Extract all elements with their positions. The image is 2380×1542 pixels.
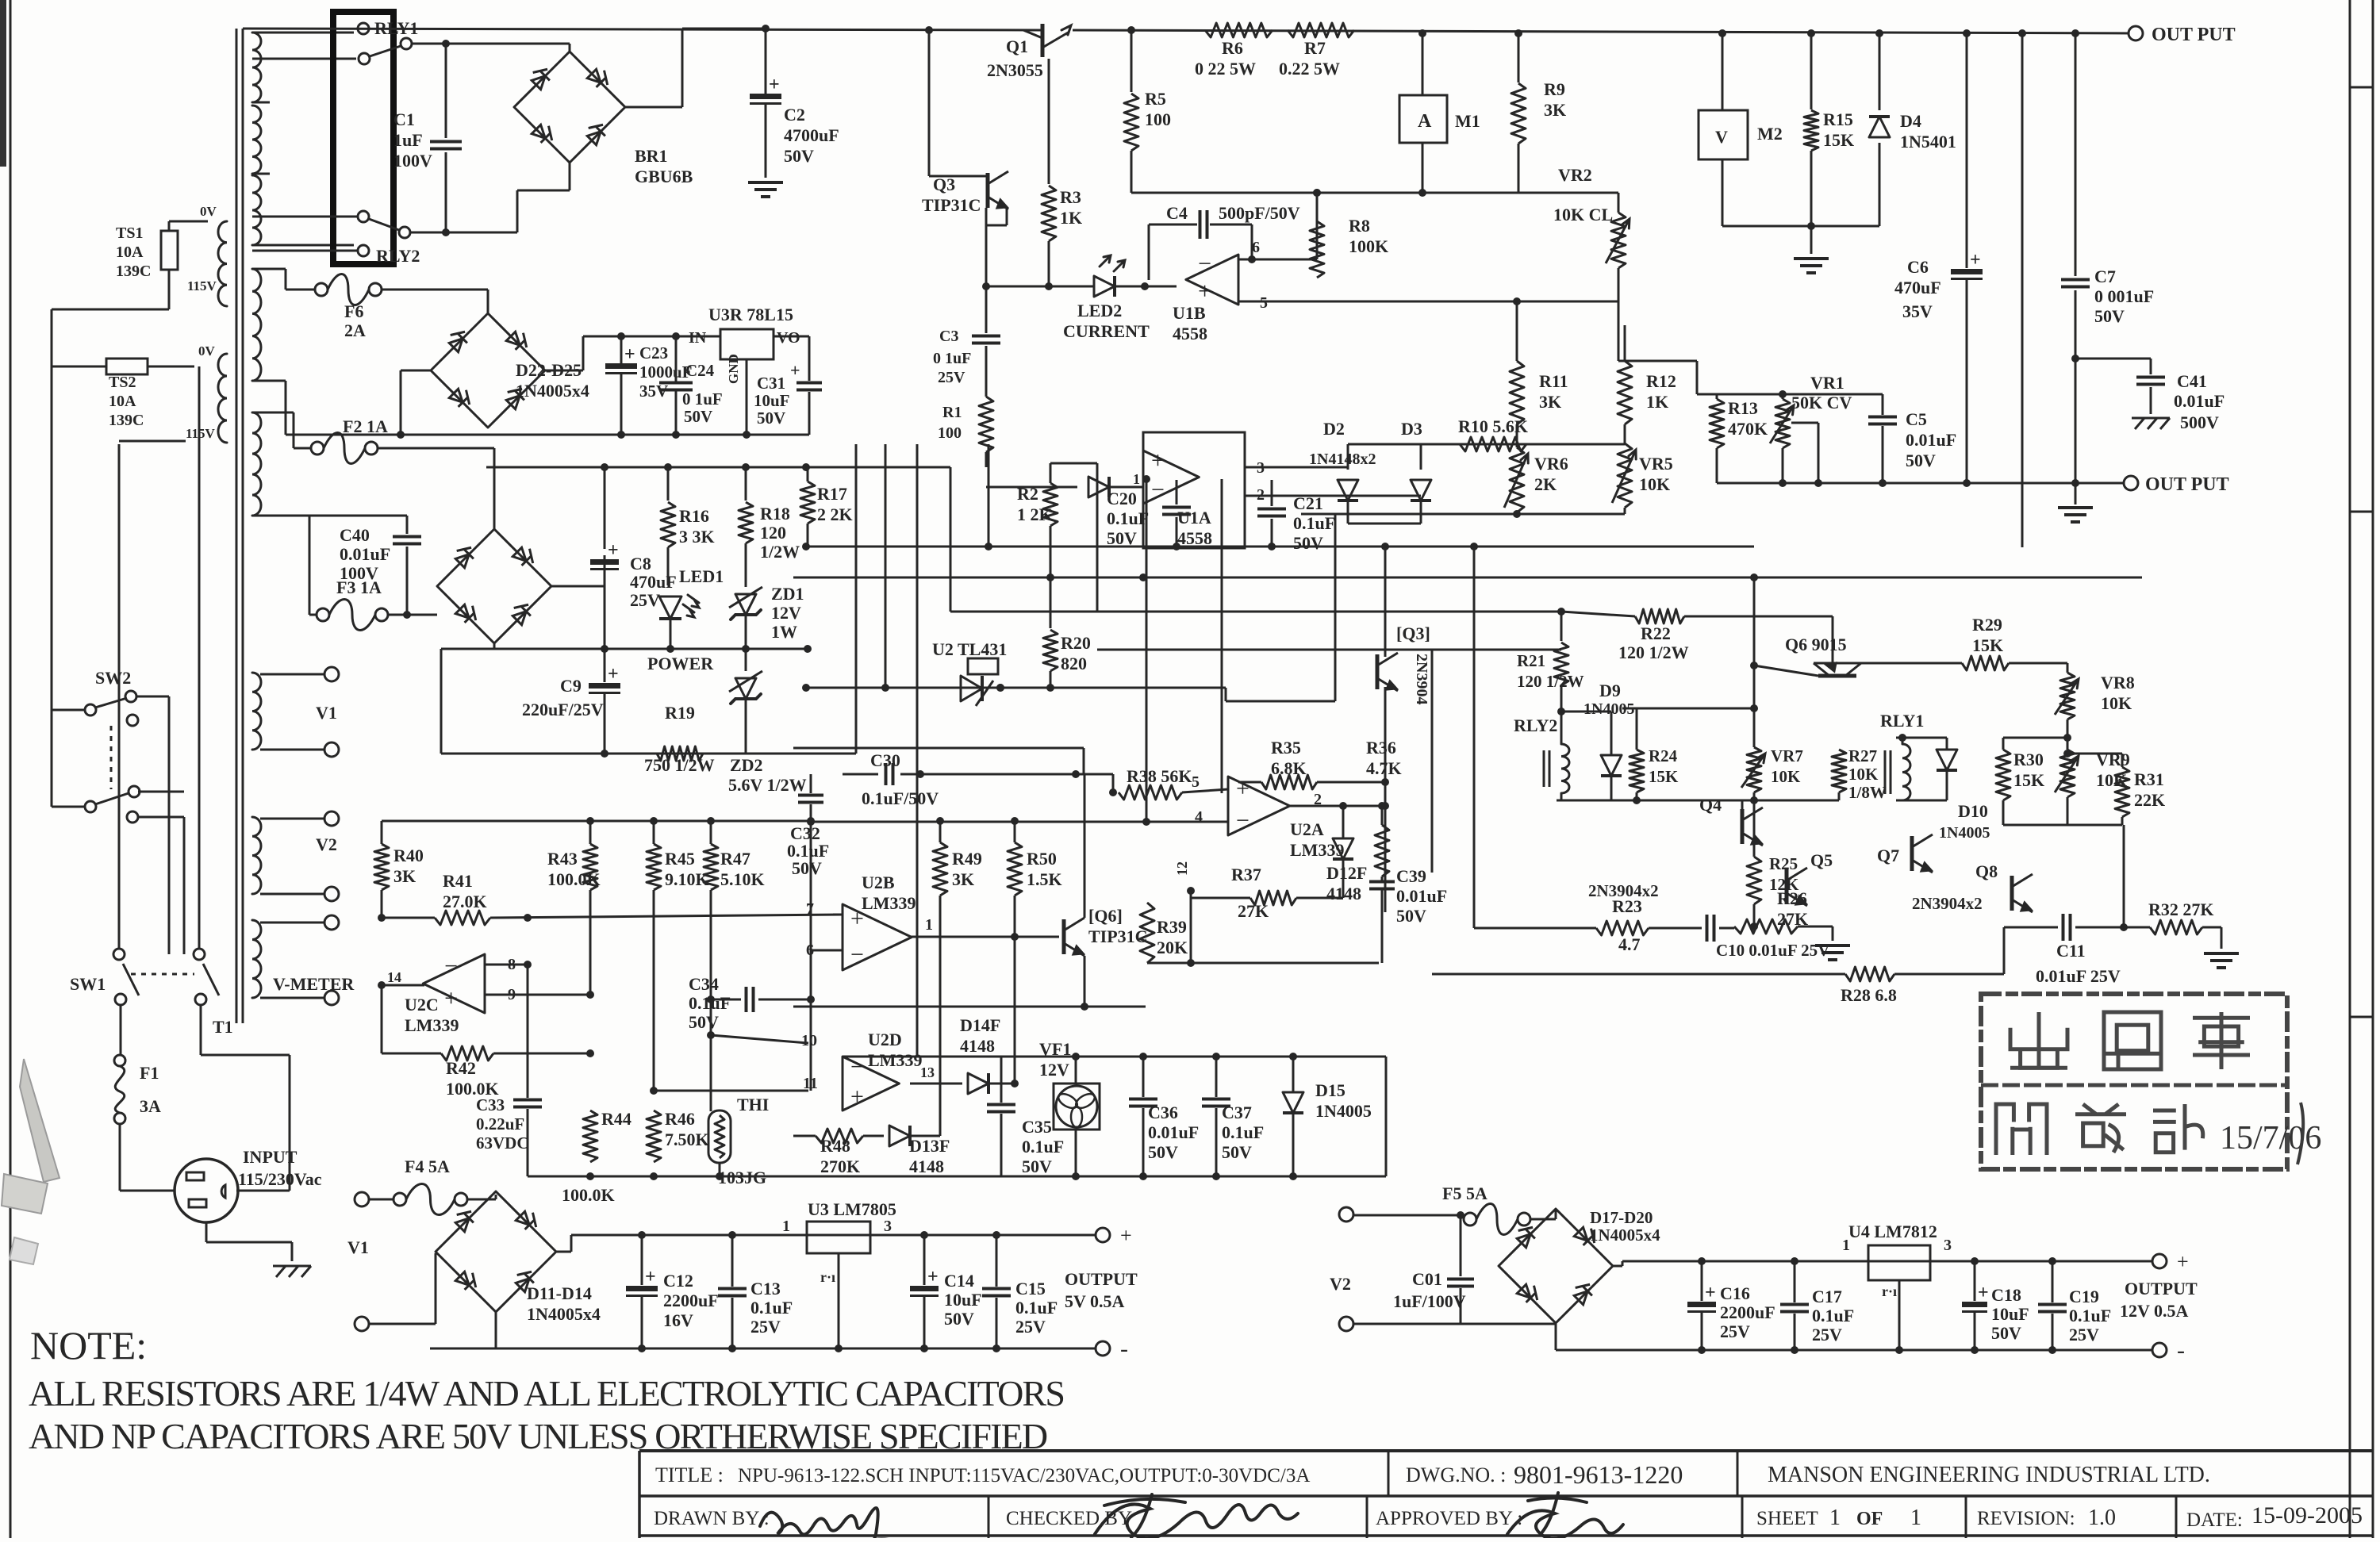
svg-text:GBU6B: GBU6B [635, 167, 693, 186]
svg-text:NOTE:: NOTE: [30, 1323, 147, 1367]
svg-text:R44: R44 [601, 1109, 631, 1129]
svg-text:C34: C34 [689, 974, 719, 994]
svg-text:50K CV: 50K CV [1791, 393, 1852, 412]
svg-text:R1: R1 [942, 404, 962, 421]
svg-text:+: + [624, 344, 635, 365]
svg-text:R13: R13 [1728, 398, 1758, 418]
svg-text:R39: R39 [1157, 917, 1187, 937]
svg-text:r·ı: r·ı [820, 1269, 835, 1285]
svg-text:F6: F6 [344, 301, 363, 321]
svg-text:R28 6.8: R28 6.8 [1841, 985, 1897, 1005]
svg-text:Q4: Q4 [1699, 795, 1722, 815]
svg-text:R49: R49 [952, 849, 982, 869]
svg-text:M1: M1 [1455, 111, 1480, 131]
svg-text:D12F: D12F [1326, 863, 1367, 883]
svg-text:2200uF: 2200uF [1720, 1302, 1775, 1322]
svg-text:2200uF: 2200uF [663, 1291, 719, 1310]
svg-text:R40: R40 [393, 846, 424, 865]
svg-text:0.1uF: 0.1uF [1107, 508, 1149, 528]
svg-text:4148: 4148 [1326, 884, 1361, 903]
svg-text:1W: 1W [771, 622, 797, 642]
svg-text:R43: R43 [547, 849, 578, 869]
svg-text:R2: R2 [1017, 484, 1038, 504]
svg-text:−: − [444, 953, 458, 979]
svg-text:U2B: U2B [862, 873, 895, 892]
svg-text:+: + [790, 360, 800, 380]
svg-text:9.10K: 9.10K [665, 869, 709, 889]
svg-text:10: 10 [801, 1032, 817, 1049]
svg-text:R31: R31 [2134, 769, 2164, 789]
svg-text:C39: C39 [1396, 866, 1426, 886]
svg-text:-: - [2177, 1337, 2185, 1364]
svg-text:[Q3]: [Q3] [1396, 623, 1430, 643]
svg-text:C33: C33 [476, 1095, 505, 1114]
svg-text:1N5401: 1N5401 [1900, 132, 1956, 152]
svg-text:R16: R16 [679, 506, 709, 526]
svg-text:R21: R21 [1517, 651, 1545, 670]
svg-text:VR6: VR6 [1534, 454, 1568, 474]
svg-text:5: 5 [1192, 773, 1200, 791]
svg-text:D10: D10 [1958, 801, 1988, 821]
svg-text:LM339: LM339 [862, 893, 916, 913]
svg-text:D13F: D13F [909, 1136, 950, 1156]
svg-text:10K: 10K [1639, 474, 1670, 494]
svg-text:−: − [1198, 251, 1211, 277]
svg-text:2N3904: 2N3904 [1413, 654, 1430, 704]
svg-text:LM339: LM339 [405, 1015, 459, 1035]
svg-text:0 001uF: 0 001uF [2094, 286, 2154, 306]
svg-text:2A: 2A [344, 320, 366, 340]
svg-text:C11: C11 [2056, 941, 2086, 961]
svg-text:12V: 12V [1039, 1060, 1069, 1080]
svg-text:C1: C1 [393, 109, 415, 129]
svg-text:F2 1A: F2 1A [343, 416, 388, 436]
svg-text:50V: 50V [1107, 528, 1137, 548]
svg-text:139C: 139C [116, 263, 151, 280]
svg-text:115/230Vac: 115/230Vac [238, 1169, 322, 1189]
svg-text:1.5K: 1.5K [1027, 869, 1062, 889]
svg-text:3 3K: 3 3K [679, 527, 715, 547]
svg-text:120: 120 [760, 523, 786, 543]
svg-text:4558: 4558 [1173, 324, 1207, 343]
svg-text:R37: R37 [1231, 865, 1261, 884]
svg-text:10uF: 10uF [1991, 1304, 2029, 1324]
svg-text:50V: 50V [1148, 1142, 1178, 1162]
svg-text:OF: OF [1856, 1509, 1883, 1529]
svg-text:GND: GND [726, 354, 741, 384]
svg-text:500pF/50V: 500pF/50V [1219, 203, 1300, 223]
svg-text:ALL RESISTORS ARE 1/4W AND ALL: ALL RESISTORS ARE 1/4W AND ALL ELECTROLY… [29, 1373, 1064, 1413]
svg-text:25V: 25V [938, 369, 965, 386]
svg-text:R42: R42 [446, 1058, 476, 1078]
svg-text:+: + [769, 75, 780, 95]
svg-text:470K: 470K [1728, 419, 1768, 439]
svg-text:C9: C9 [560, 676, 582, 696]
svg-text:V: V [1715, 127, 1728, 147]
svg-text:3K: 3K [1544, 100, 1566, 120]
svg-text:470uF: 470uF [1894, 278, 1941, 297]
svg-text:C35: C35 [1022, 1117, 1052, 1137]
svg-text:LED2: LED2 [1077, 301, 1122, 320]
svg-text:3: 3 [884, 1218, 892, 1235]
svg-text:100V: 100V [340, 563, 378, 583]
svg-text:4.7K: 4.7K [1366, 758, 1402, 778]
svg-text:100: 100 [938, 424, 962, 442]
svg-text:+: + [444, 985, 458, 1011]
svg-text:+: + [1705, 1283, 1716, 1303]
svg-text:R18: R18 [760, 504, 790, 524]
svg-text:U4 LM7812: U4 LM7812 [1848, 1222, 1937, 1241]
svg-text:50V: 50V [2094, 306, 2125, 326]
svg-text:25V: 25V [1015, 1317, 1046, 1337]
svg-text:0.1uF: 0.1uF [2069, 1306, 2111, 1325]
svg-text:0.1uF: 0.1uF [1222, 1122, 1264, 1142]
svg-text:R19: R19 [665, 703, 695, 723]
svg-text:R11: R11 [1539, 371, 1568, 391]
svg-text:R23: R23 [1612, 896, 1642, 916]
svg-text:TS2: TS2 [109, 374, 136, 391]
svg-text:D9: D9 [1599, 681, 1621, 700]
svg-text:V1: V1 [316, 703, 337, 723]
svg-text:1N4005x4: 1N4005x4 [516, 381, 589, 401]
svg-text:C12: C12 [663, 1271, 693, 1291]
svg-text:OUTPUT: OUTPUT [1065, 1269, 1138, 1289]
svg-text:35V: 35V [1902, 301, 1933, 321]
svg-text:D15: D15 [1315, 1080, 1345, 1100]
svg-text:D3: D3 [1401, 419, 1422, 439]
svg-text:0V: 0V [200, 204, 217, 219]
svg-text:D11-D14: D11-D14 [527, 1283, 592, 1303]
svg-text:3K: 3K [952, 869, 974, 889]
svg-text:3: 3 [1944, 1237, 1952, 1254]
svg-text:100.0K: 100.0K [547, 869, 601, 889]
svg-text:63VDC: 63VDC [476, 1133, 529, 1153]
svg-text:A: A [1418, 111, 1432, 132]
svg-text:r·ı: r·ı [1882, 1283, 1897, 1299]
svg-text:470uF: 470uF [630, 572, 677, 592]
svg-text:10uF: 10uF [944, 1290, 982, 1310]
svg-text:DWG.NO. :: DWG.NO. : [1406, 1463, 1506, 1486]
svg-text:1N4005x4: 1N4005x4 [1590, 1226, 1660, 1245]
svg-text:V1: V1 [347, 1237, 369, 1257]
svg-text:−: − [1236, 807, 1249, 834]
svg-text:C4: C4 [1166, 203, 1188, 223]
svg-text:C37: C37 [1222, 1103, 1252, 1122]
svg-text:4.7: 4.7 [1618, 934, 1641, 954]
svg-text:0.1uF: 0.1uF [1015, 1298, 1058, 1318]
svg-text:0 22 5W: 0 22 5W [1195, 59, 1256, 79]
svg-text:NPU-9613-122.SCH INPUT:115VAC: NPU-9613-122.SCH INPUT:115VAC/230VAC,OUT… [738, 1465, 1310, 1486]
svg-text:VR7: VR7 [1771, 746, 1803, 765]
svg-text:R7: R7 [1304, 38, 1326, 58]
svg-text:2K: 2K [1534, 474, 1557, 494]
svg-text:LM339: LM339 [868, 1050, 922, 1070]
svg-text:C41: C41 [2177, 371, 2207, 391]
svg-text:4148: 4148 [960, 1036, 995, 1056]
svg-text:[Q6]: [Q6] [1088, 906, 1123, 926]
svg-text:R41: R41 [443, 871, 473, 891]
svg-text:R50: R50 [1027, 849, 1057, 869]
svg-text:27.0K: 27.0K [443, 892, 487, 911]
svg-text:25V: 25V [1812, 1325, 1842, 1344]
svg-text:15-09-2005: 15-09-2005 [2251, 1502, 2363, 1529]
svg-text:C16: C16 [1720, 1283, 1750, 1303]
svg-text:C5: C5 [1906, 409, 1927, 429]
svg-text:0 1uF: 0 1uF [933, 350, 971, 367]
svg-text:12V: 12V [771, 603, 801, 623]
svg-text:1N4148x2: 1N4148x2 [1309, 451, 1376, 468]
svg-text:50V: 50V [944, 1309, 974, 1329]
svg-text:1K: 1K [1646, 392, 1668, 412]
svg-text:C15: C15 [1015, 1279, 1046, 1298]
svg-text:+: + [1198, 278, 1211, 304]
svg-text:R46: R46 [665, 1109, 695, 1129]
svg-text:14: 14 [387, 969, 401, 985]
svg-text:1K: 1K [1060, 208, 1082, 228]
svg-text:1: 1 [1829, 1506, 1841, 1530]
svg-text:R35: R35 [1271, 738, 1301, 758]
svg-text:1N4005: 1N4005 [1939, 824, 1990, 842]
svg-text:25V: 25V [750, 1317, 781, 1337]
svg-text:OUT PUT: OUT PUT [2145, 474, 2229, 495]
svg-text:+: + [1120, 1224, 1132, 1247]
svg-text:1uF/100V: 1uF/100V [1393, 1291, 1466, 1311]
svg-text:15/7/06: 15/7/06 [2220, 1120, 2321, 1156]
svg-text:LED1: LED1 [679, 566, 724, 586]
svg-text:100V: 100V [393, 151, 432, 171]
svg-text:0.01uF: 0.01uF [1906, 430, 1956, 450]
svg-text:U3 LM7805: U3 LM7805 [808, 1199, 896, 1219]
svg-text:F1: F1 [140, 1063, 159, 1083]
svg-text:10K: 10K [1771, 767, 1801, 786]
svg-text:120 1/2W: 120 1/2W [1517, 672, 1584, 691]
svg-text:VF1: VF1 [1039, 1039, 1071, 1059]
svg-text:2 2K: 2 2K [817, 504, 853, 524]
svg-text:50V: 50V [1991, 1323, 2021, 1343]
svg-text:16V: 16V [663, 1310, 693, 1330]
svg-text:50V: 50V [792, 858, 822, 878]
svg-text:VO: VO [777, 329, 800, 347]
svg-text:DATE:: DATE: [2186, 1509, 2243, 1531]
svg-text:SW2: SW2 [95, 668, 131, 688]
svg-text:C24: C24 [685, 361, 715, 380]
svg-text:115V: 115V [186, 426, 216, 441]
svg-text:C6: C6 [1907, 257, 1929, 277]
svg-text:0.1uF: 0.1uF [750, 1298, 793, 1318]
svg-text:0.1uF: 0.1uF [1022, 1137, 1064, 1156]
svg-text:C13: C13 [750, 1279, 781, 1298]
svg-text:F5 5A: F5 5A [1442, 1183, 1487, 1203]
svg-text:R9: R9 [1544, 79, 1565, 99]
svg-text:750 1/2W: 750 1/2W [644, 755, 715, 775]
svg-text:1N4005x4: 1N4005x4 [527, 1304, 601, 1324]
svg-text:+: + [608, 540, 619, 561]
svg-text:5: 5 [1260, 294, 1268, 312]
svg-text:27K: 27K [1238, 901, 1269, 921]
svg-text:0.1uF: 0.1uF [1293, 513, 1335, 533]
svg-text:R32 27K: R32 27K [2148, 899, 2214, 919]
svg-text:R29: R29 [1972, 615, 2002, 635]
svg-text:DRAWN BY :: DRAWN BY : [654, 1508, 770, 1529]
svg-text:0.1uF: 0.1uF [1812, 1306, 1854, 1325]
svg-text:10K: 10K [2101, 693, 2132, 713]
svg-text:C20: C20 [1107, 489, 1137, 508]
svg-text:0.1uF/50V: 0.1uF/50V [862, 788, 939, 808]
svg-text:VR1: VR1 [1810, 373, 1844, 393]
svg-text:R8: R8 [1349, 216, 1370, 236]
svg-text:9801-9613-1220: 9801-9613-1220 [1514, 1460, 1683, 1489]
svg-text:5.10K: 5.10K [720, 869, 765, 889]
svg-text:R47: R47 [720, 849, 750, 869]
svg-text:+: + [608, 664, 619, 685]
svg-text:1: 1 [925, 916, 933, 934]
svg-text:1: 1 [1910, 1506, 1921, 1530]
svg-text:10A: 10A [109, 393, 136, 410]
svg-text:R10 5.6K: R10 5.6K [1458, 416, 1528, 436]
svg-text:V2: V2 [1330, 1274, 1351, 1294]
svg-text:APPROVED BY :: APPROVED BY : [1376, 1508, 1522, 1529]
svg-text:Q7: Q7 [1877, 846, 1899, 865]
svg-text:+: + [850, 1084, 864, 1110]
svg-text:1N4005: 1N4005 [1315, 1101, 1372, 1121]
svg-text:115V: 115V [187, 278, 217, 293]
svg-text:25V: 25V [630, 590, 660, 610]
svg-text:15K: 15K [1823, 130, 1854, 150]
svg-text:TIP31C: TIP31C [922, 195, 981, 215]
svg-text:10A: 10A [116, 244, 144, 261]
svg-text:D17-D20: D17-D20 [1590, 1208, 1653, 1227]
svg-text:C31: C31 [757, 374, 785, 393]
svg-text:50V: 50V [1293, 533, 1323, 553]
svg-text:5.6V 1/2W: 5.6V 1/2W [728, 775, 807, 795]
svg-text:3K: 3K [1539, 392, 1561, 412]
svg-text:15K: 15K [1649, 767, 1679, 786]
svg-text:C10 0.01uF 25V: C10 0.01uF 25V [1716, 941, 1829, 960]
svg-text:−: − [1151, 477, 1165, 503]
svg-text:R17: R17 [817, 484, 847, 504]
svg-text:R27: R27 [1848, 746, 1877, 765]
svg-text:R5: R5 [1145, 89, 1166, 109]
svg-text:50V: 50V [1022, 1156, 1052, 1176]
svg-text:Q8: Q8 [1975, 861, 1998, 881]
svg-text:3K: 3K [393, 866, 416, 886]
svg-text:Q6 9015: Q6 9015 [1785, 635, 1847, 654]
svg-text:U1B: U1B [1173, 303, 1206, 323]
svg-text:C17: C17 [1812, 1287, 1842, 1306]
svg-text:R6: R6 [1222, 38, 1243, 58]
svg-text:R20: R20 [1061, 633, 1091, 653]
svg-text:OUT PUT: OUT PUT [2152, 25, 2236, 45]
svg-text:139C: 139C [109, 412, 144, 429]
svg-text:1/8W: 1/8W [1848, 783, 1887, 802]
svg-text:R48: R48 [820, 1136, 850, 1156]
svg-text:820: 820 [1061, 654, 1087, 673]
svg-text:1uF: 1uF [393, 130, 423, 150]
svg-text:TIP31C: TIP31C [1088, 926, 1148, 946]
svg-text:D14F: D14F [960, 1015, 1000, 1035]
svg-text:C40: C40 [340, 525, 370, 545]
svg-text:+: + [1970, 250, 1981, 270]
svg-text:0.01uF: 0.01uF [2174, 391, 2225, 411]
svg-text:D4: D4 [1900, 111, 1921, 131]
svg-text:+: + [1236, 775, 1249, 801]
svg-text:10uF: 10uF [754, 391, 790, 410]
svg-text:+: + [1151, 447, 1165, 474]
svg-text:BR1: BR1 [635, 146, 668, 166]
svg-text:RLY1: RLY1 [1880, 711, 1924, 731]
svg-text:4: 4 [1195, 808, 1203, 826]
svg-text:13: 13 [920, 1064, 935, 1080]
svg-text:4558: 4558 [1177, 528, 1212, 548]
svg-text:U3R 78L15: U3R 78L15 [708, 305, 793, 324]
svg-text:R25: R25 [1769, 854, 1798, 873]
svg-text:R24: R24 [1649, 746, 1678, 765]
svg-text:1/2W: 1/2W [760, 542, 800, 562]
svg-text:C7: C7 [2094, 267, 2116, 286]
svg-text:50V: 50V [689, 1012, 719, 1032]
svg-text:U1A: U1A [1177, 508, 1211, 527]
svg-text:0.01uF 25V: 0.01uF 25V [2036, 966, 2121, 986]
svg-text:6.8K: 6.8K [1271, 758, 1307, 778]
svg-text:12V 0.5A: 12V 0.5A [2120, 1301, 2188, 1321]
svg-text:VR2: VR2 [1558, 165, 1592, 185]
svg-text:RLY2: RLY2 [376, 246, 420, 266]
svg-text:25V: 25V [1720, 1321, 1750, 1341]
svg-text:1000uF: 1000uF [639, 362, 693, 382]
svg-text:50V: 50V [684, 407, 712, 426]
svg-text:POWER: POWER [647, 654, 714, 673]
svg-text:TS1: TS1 [116, 224, 143, 242]
svg-text:2N3055: 2N3055 [987, 60, 1043, 80]
svg-text:C36: C36 [1148, 1103, 1178, 1122]
svg-text:R22: R22 [1641, 623, 1671, 643]
svg-text:100K: 100K [1349, 236, 1388, 256]
svg-text:C3: C3 [939, 328, 958, 345]
svg-text:0.01uF: 0.01uF [340, 544, 390, 564]
svg-text:R38 56K: R38 56K [1127, 766, 1192, 786]
svg-text:20K: 20K [1157, 938, 1188, 957]
svg-text:15K: 15K [1972, 635, 2003, 655]
svg-text:100: 100 [1145, 109, 1171, 129]
svg-text:1: 1 [1842, 1237, 1850, 1254]
svg-text:−: − [850, 942, 864, 968]
svg-text:0 1uF: 0 1uF [682, 389, 723, 409]
svg-text:MANSON ENGINEERING INDUSTRIA: MANSON ENGINEERING INDUSTRIAL LTD. [1768, 1463, 2210, 1487]
svg-text:1.0: 1.0 [2088, 1506, 2116, 1530]
svg-text:4700uF: 4700uF [784, 125, 839, 145]
svg-text:C8: C8 [630, 554, 651, 573]
svg-text:10K CL: 10K CL [1553, 205, 1613, 224]
svg-text:12K: 12K [1769, 875, 1799, 894]
svg-text:ZD1: ZD1 [771, 584, 804, 604]
svg-text:0.22uF: 0.22uF [476, 1114, 524, 1133]
svg-text:SW1: SW1 [70, 974, 106, 994]
svg-text:IN: IN [689, 329, 707, 347]
svg-text:50V: 50V [1396, 906, 1426, 926]
svg-text:C23: C23 [639, 343, 668, 362]
svg-text:U2C: U2C [405, 995, 439, 1015]
svg-text:3A: 3A [140, 1096, 161, 1116]
svg-text:VR8: VR8 [2101, 673, 2135, 692]
svg-text:50V: 50V [1906, 451, 1936, 470]
svg-text:1: 1 [782, 1218, 790, 1235]
svg-text:R12: R12 [1646, 371, 1676, 391]
svg-text:50V: 50V [784, 146, 814, 166]
svg-text:U2 TL431: U2 TL431 [932, 639, 1007, 659]
svg-text:+: + [1978, 1283, 1989, 1303]
svg-text:+: + [645, 1267, 656, 1287]
svg-text:270K: 270K [820, 1156, 860, 1176]
